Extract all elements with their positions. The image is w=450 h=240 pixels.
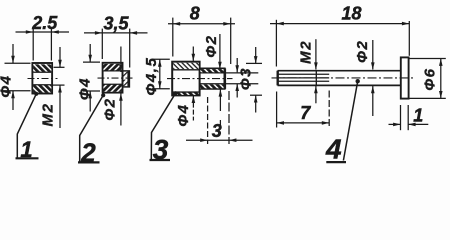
dim 2.5 extension line right <box>50 28 52 61</box>
dim 3,5 arrow right <box>130 31 137 35</box>
leader dot part3 <box>173 91 177 95</box>
part4 thread middle line <box>278 77 330 79</box>
dim Ф2 arrow down (part2) <box>119 65 123 72</box>
leader line part3 <box>151 93 175 159</box>
dim Ф4 tick top (part2) <box>83 61 100 63</box>
dim Ф3 arrow down line <box>236 58 238 72</box>
dim 3 extension line left (dashed) <box>207 97 209 144</box>
part2 bottom hatched wall <box>103 84 121 91</box>
part1 thread bore line top <box>33 71 51 73</box>
dim 3 dimension line <box>186 139 253 141</box>
dim Ф3 arrow down head <box>235 65 239 72</box>
dim 1 arrow left (outside) <box>393 123 400 127</box>
part3 tube top wall hatch <box>200 69 223 72</box>
dim 7 dimension line <box>277 122 330 124</box>
dim Ф6 arrow down (inside) <box>439 91 443 98</box>
dim Ф2 line upper (part2) <box>120 47 122 73</box>
part4 rod bottom edge <box>278 84 401 86</box>
dim Ф2 bottom arrow head (part3) <box>219 89 223 96</box>
part1 bottom hatched wall <box>33 85 51 93</box>
dim M2 arrow head up (part4) <box>314 86 318 93</box>
dim 18 dimension line <box>270 23 409 25</box>
dim 3 extension line right <box>228 91 230 144</box>
dim 2.5 arrow right <box>51 30 58 34</box>
dim Ф4 tick top (part1) <box>5 62 31 64</box>
dim 8 arrow right (inside) <box>223 22 230 26</box>
dim M2 arrow line upper (part4) <box>315 39 317 69</box>
part4 rod top edge <box>278 70 401 72</box>
dim Ф2 arrow line lower (part4) <box>372 86 374 116</box>
dim outer right line upper (part3) <box>255 47 257 63</box>
dim 8 extension line right <box>230 18 232 64</box>
part2 small tip outline <box>123 71 130 87</box>
svg-text:7: 7 <box>300 103 311 123</box>
dim M2 arrow down (part1) <box>58 60 62 67</box>
dim Ф6 arrow up (inside) <box>439 59 443 66</box>
svg-text:Ф4: Ф4 <box>76 77 93 100</box>
part2 top hatched wall <box>103 64 121 71</box>
dim Ф4,5 arrow up (inside) <box>158 59 162 66</box>
leader dot part1 <box>34 92 38 96</box>
dim M2 arrow line lower (part4) <box>315 86 317 104</box>
svg-text:1: 1 <box>20 137 32 162</box>
dim M2 line upper (part1) <box>59 47 61 67</box>
leader dot part2 <box>101 93 105 97</box>
dim Ф4,5 line (part3) <box>159 59 161 88</box>
svg-text:Ф3: Ф3 <box>237 67 254 90</box>
dim 7 extension line right (dashed) <box>328 91 330 128</box>
dim Ф2 arrow up (part2) <box>119 93 123 100</box>
dim Ф2 top arrow line (part3) <box>219 34 221 69</box>
dim 8 arrow left (inside) <box>173 22 180 26</box>
part2 tip interior hatch upper <box>123 72 128 77</box>
dim 1 extension line left <box>400 105 402 130</box>
dim 1 dimension line right part <box>408 123 428 125</box>
dim Ф4 line lower (part1) <box>12 91 14 110</box>
dim Ф4 top arrow head (part3) <box>192 54 196 61</box>
svg-text:Ф6: Ф6 <box>422 67 439 90</box>
dim 1 arrow right (outside) <box>408 123 415 127</box>
part4 thread line lower <box>278 80 330 82</box>
dim 7 extension line left <box>276 92 278 128</box>
dim Ф4 arrow down (part1) <box>11 56 15 63</box>
dim 2.5 extension line left <box>32 28 34 61</box>
dim 18 arrow right (inside) <box>402 22 409 26</box>
svg-text:3: 3 <box>153 134 169 165</box>
dim Ф4 arrow up (part1) <box>11 91 15 98</box>
svg-text:Ф2: Ф2 <box>354 40 371 63</box>
part3 bore line top <box>173 69 200 71</box>
dim outer right arrow down (part3) <box>254 56 258 63</box>
part4 thread end line <box>315 71 317 85</box>
svg-text:2.5: 2.5 <box>31 13 58 33</box>
dim 3,5 extension line right <box>129 29 131 68</box>
dim Ф4 top arrow line (part3) <box>192 47 194 61</box>
dim Ф4,5 tick bottom <box>152 88 170 90</box>
part1 thread bore line bottom <box>33 84 51 86</box>
dim 18 extension line right <box>408 21 410 56</box>
dim Ф2 bottom line lower dash (part3) <box>219 120 221 127</box>
svg-text:Ф2: Ф2 <box>102 97 119 120</box>
svg-text:Ф2: Ф2 <box>203 34 220 57</box>
leader line part4 <box>343 81 357 160</box>
svg-text:М2: М2 <box>39 102 56 126</box>
dim 3 arrow left (outside) <box>200 138 207 142</box>
svg-text:М2: М2 <box>297 40 314 64</box>
dim 3,5 arrow left <box>95 31 102 35</box>
part3 top wall hatch <box>173 63 199 69</box>
dim 7 arrow left (inside) <box>277 121 284 125</box>
label 2 underline <box>78 161 100 163</box>
dim 7 arrow right (inside) <box>322 121 329 125</box>
part3 big body outline <box>172 62 199 96</box>
dim Ф2 arrow line upper (part4) <box>372 40 374 70</box>
part3 tube bottom edge <box>200 88 226 90</box>
dim 1 extension line right <box>407 105 409 130</box>
dim 8 dimension line <box>168 23 235 25</box>
dim 3,5 extension line left <box>101 29 103 59</box>
dim Ф4 line lower (part2) <box>89 91 91 111</box>
part4 centerline <box>272 77 415 79</box>
dim Ф4,5 arrow down (inside) <box>158 81 162 88</box>
part4 thread line upper <box>278 73 330 75</box>
dim M2 arrow head down (part4) <box>314 62 318 69</box>
dim Ф2 arrow head down (part4) <box>371 62 375 69</box>
part2 bore line bottom <box>103 83 121 85</box>
part4 head outline <box>401 57 409 98</box>
dim M2 line lower (part1) <box>59 85 61 128</box>
dim 2.5 arrow left <box>26 30 33 34</box>
part3 centerline <box>167 78 233 80</box>
dim 3,5 dimension line <box>84 32 148 34</box>
dim 1 dimension line left part <box>389 123 401 125</box>
dim Ф2 arrow head up (part4) <box>371 86 375 93</box>
dim M2 tick bottom (part1) <box>53 84 65 86</box>
part3 tube bore line top / ext <box>200 72 259 74</box>
dim Ф3 arrow up line <box>236 84 238 98</box>
svg-text:Ф4: Ф4 <box>0 74 15 97</box>
dim Ф4,5 tick top <box>152 58 170 60</box>
dim Ф2 top arrow head (part3) <box>218 62 222 69</box>
dim outer right tick top (part3) <box>246 62 262 64</box>
dim Ф6 dimension line <box>440 59 442 99</box>
part2 tip end face thick <box>127 71 129 87</box>
svg-text:Ф4: Ф4 <box>175 103 192 126</box>
part1 body outline <box>32 63 52 94</box>
dim Ф4 tick bottom (part1) <box>5 90 31 92</box>
dim Ф4 arrow up (part2) <box>88 91 92 98</box>
svg-text:18: 18 <box>341 3 361 23</box>
dim Ф4 arrow down (part2) <box>88 55 92 62</box>
dim 2.5 dimension line <box>16 31 70 33</box>
part3 tube end face <box>224 68 227 89</box>
dim 18 arrow left (inside) <box>276 22 283 26</box>
part4 rod left end face <box>277 71 279 86</box>
dim Ф4 tick bottom (part2) <box>83 90 100 92</box>
part3 bottom wall (dark) <box>173 92 199 95</box>
part2 bore line top <box>103 70 121 72</box>
part2 centerline <box>98 77 134 79</box>
dim 8 extension line left <box>172 18 174 57</box>
part3 tube top edge <box>200 67 226 69</box>
dim Ф4 bottom arrow head (part3) <box>192 96 196 103</box>
part3 tube bottom wall hatch <box>200 84 223 88</box>
dim Ф3 arrow up head <box>235 84 239 91</box>
dim outer right line lower (part3) <box>255 95 257 112</box>
leader line part2 <box>80 95 104 161</box>
label 3 underline <box>150 159 171 161</box>
dim Ф2 line lower (part2) <box>120 93 122 125</box>
part3 bore line bottom <box>173 91 200 93</box>
svg-text:8: 8 <box>190 4 200 24</box>
part2 body outline <box>103 63 123 93</box>
dim Ф2 bottom arrow line (part3) <box>219 89 221 111</box>
label 4 underline <box>326 161 346 163</box>
dim M2 tick top (part1) <box>54 66 65 68</box>
dim Ф4 line upper (part2) <box>89 44 91 62</box>
svg-text:Ф4,5: Ф4,5 <box>143 57 160 96</box>
svg-text:3,5: 3,5 <box>103 14 129 34</box>
dim outer right tick bottom (part3) <box>250 94 262 96</box>
svg-text:2: 2 <box>80 138 96 168</box>
dim Ф6 extension line bottom <box>409 97 446 99</box>
dim M2 arrow up (part1) <box>58 85 62 92</box>
leader line part1 <box>17 94 36 158</box>
dim outer right arrow up (part3) <box>254 95 258 102</box>
part1 centerline <box>28 78 58 80</box>
dim Ф6 extension line top <box>409 58 446 60</box>
part1 top hatched wall <box>33 64 51 72</box>
svg-text:3: 3 <box>212 121 222 141</box>
dim Ф4 bottom arrow line (part3) <box>192 96 194 121</box>
dim Ф4 line upper (part1) <box>12 44 14 63</box>
svg-text:1: 1 <box>413 106 423 126</box>
svg-text:4: 4 <box>325 134 342 165</box>
part3 tube bore line bottom / ext <box>200 83 259 85</box>
leader dot part4 <box>356 79 360 83</box>
dim 3 arrow right (outside) <box>229 138 236 142</box>
label 1 underline <box>16 157 39 159</box>
dim 18 extension line left <box>275 20 277 67</box>
part2 tip interior hatch lower <box>123 80 128 86</box>
